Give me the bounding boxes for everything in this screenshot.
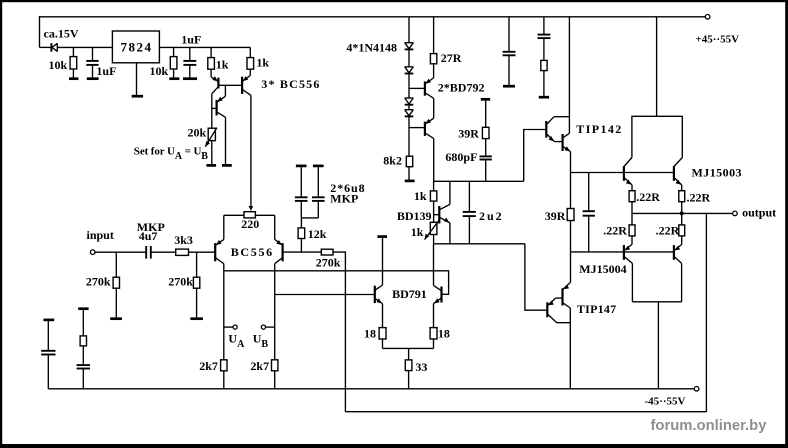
wire: feedback bottom run xyxy=(345,411,706,413)
svg-text:input: input xyxy=(87,228,114,242)
potentiometer 1k (bias) xyxy=(430,222,437,234)
svg-text:TIP142: TIP142 xyxy=(576,122,622,136)
resistor 8k2 xyxy=(406,156,412,167)
wire: output node xyxy=(632,212,733,214)
regulator U1 7824 xyxy=(112,31,159,63)
resistor 10k (input filter) xyxy=(72,47,74,56)
resistor 27R xyxy=(433,17,435,54)
resistor 39R (comp) xyxy=(485,101,487,128)
svg-text:2u2: 2u2 xyxy=(479,209,504,223)
ground (snubber) xyxy=(539,96,549,99)
svg-text:MJ15003: MJ15003 xyxy=(692,166,742,180)
svg-text:12k: 12k xyxy=(308,227,327,241)
svg-text:forum.onliner.by: forum.onliner.by xyxy=(651,418,768,434)
resistor 12k (feedback divider) xyxy=(300,239,302,253)
svg-text:.22R: .22R xyxy=(656,224,680,238)
ground (BD791 collector) xyxy=(377,235,387,238)
transistor Q4 BC556 (diff pair left) xyxy=(214,243,216,261)
ground (8k2) xyxy=(405,180,415,183)
transistor Q16 MJ15004 (right) xyxy=(673,245,675,260)
diode D5 1N4148 xyxy=(405,109,414,111)
capacitor 1uF (output filter) xyxy=(189,47,191,61)
potentiometer 20k xyxy=(208,128,215,140)
svg-text:3* BC556: 3* BC556 xyxy=(261,77,320,91)
svg-text:4u7: 4u7 xyxy=(139,229,158,243)
wire: caps join xyxy=(301,217,318,219)
resistor 10k (output filter) xyxy=(173,47,175,56)
wire: Q5 base to feedback node xyxy=(283,251,322,253)
wire: +rail to output collectors xyxy=(656,17,658,117)
resistor 39R (bias chain) xyxy=(570,173,572,209)
wire: Q1-Q2 base link xyxy=(218,84,242,86)
transistor Q9 BD791 xyxy=(382,238,384,285)
wire: cap to 3k3 xyxy=(151,251,176,253)
resistor 2k7 (UA) xyxy=(221,360,227,371)
svg-text:1k: 1k xyxy=(256,56,269,70)
potentiometer 220 (diff pair emitters) xyxy=(224,214,244,216)
diode D3 1N4148 xyxy=(405,66,414,68)
wire: VAS bottom node xyxy=(434,243,525,245)
svg-text:.22R: .22R xyxy=(603,223,627,237)
ground (left cap branch) xyxy=(44,319,55,322)
svg-text:1uF: 1uF xyxy=(96,64,116,78)
wire: Q5 collector to BD791 base xyxy=(275,294,375,296)
resistor 2k7 (UB) xyxy=(272,360,278,371)
svg-text:7824: 7824 xyxy=(121,39,153,54)
ground (7824) xyxy=(136,63,138,95)
node UA terminal xyxy=(224,326,233,328)
svg-text:.22R: .22R xyxy=(687,191,711,205)
svg-text:8k2: 8k2 xyxy=(383,154,402,168)
transistor Q15 MJ15004 (left) xyxy=(623,245,625,260)
svg-text:2*BD792: 2*BD792 xyxy=(438,80,485,94)
resistor 270k (feedback) xyxy=(321,249,333,255)
svg-text:BD139: BD139 xyxy=(397,209,432,223)
resistor 18 (left) xyxy=(379,328,386,339)
svg-text:UB: UB xyxy=(253,331,269,350)
svg-text:4*1N4148: 4*1N4148 xyxy=(346,41,397,55)
svg-text:TIP147: TIP147 xyxy=(577,302,617,316)
wire: diff outputs cross link xyxy=(224,270,434,272)
capacitor 680pF xyxy=(480,155,492,157)
svg-text:-45··55V: -45··55V xyxy=(645,396,686,408)
ground (RC branch) xyxy=(78,307,88,310)
wire: 3k3 to Q4 base xyxy=(189,251,216,253)
svg-text:680pF: 680pF xyxy=(445,150,477,164)
wire: VAS top node xyxy=(434,180,524,182)
capacitor 6u8 MKP (right) xyxy=(313,165,324,168)
svg-text:33: 33 xyxy=(415,360,427,374)
resistor .22R (top right) xyxy=(679,191,685,202)
capacitor 6u8 MKP (left) xyxy=(296,165,307,168)
svg-text:270k: 270k xyxy=(86,275,111,289)
svg-text:270k: 270k xyxy=(168,275,193,289)
capacitor (snubber) xyxy=(543,17,545,35)
transistor Q8 BD139 (Vbe multiplier) xyxy=(438,206,440,224)
resistor 18 (right) xyxy=(430,328,437,339)
capacitor (parallel 39R) xyxy=(588,173,590,212)
svg-text:270k: 270k xyxy=(316,256,341,270)
svg-text:20k: 20k xyxy=(188,125,207,139)
node input terminal xyxy=(90,250,95,255)
resistor (snubber) xyxy=(541,60,547,70)
svg-text:10k: 10k xyxy=(49,58,68,72)
svg-text:27R: 27R xyxy=(441,51,462,65)
resistor 270k (input shunt) xyxy=(115,252,117,277)
svg-text:+45··55V: +45··55V xyxy=(696,34,740,46)
wire: +supply top rail xyxy=(40,16,706,18)
svg-text:220: 220 xyxy=(241,217,259,231)
diode D4 1N4148 xyxy=(405,97,414,99)
svg-text:UA: UA xyxy=(228,331,245,350)
wire: tap to Q7 base xyxy=(409,127,425,129)
svg-text:output: output xyxy=(742,205,776,219)
transistor Q14 MJ15003 (right) xyxy=(673,166,675,181)
resistor (rail RC) xyxy=(82,310,84,336)
resistor .22R (bottom right) xyxy=(681,213,683,225)
svg-text:.22R: .22R xyxy=(636,190,660,204)
wire: input to coupling cap xyxy=(95,251,146,253)
transistor Q10 (mirror, diode connected) xyxy=(433,244,435,286)
svg-text:BD791: BD791 xyxy=(392,287,427,301)
svg-text:10k: 10k xyxy=(150,64,169,78)
wire: 7824 output rail xyxy=(159,46,250,48)
svg-text:MKP: MKP xyxy=(330,192,358,206)
ground (20k) xyxy=(206,164,216,167)
wire: feedback takeoff xyxy=(705,213,707,411)
wire: emitters join xyxy=(383,347,434,349)
wire: diode to 7824 xyxy=(57,46,112,48)
capacitor 1uF (input filter) xyxy=(92,47,94,61)
wire: PNP base line xyxy=(571,251,674,253)
border frame xyxy=(0,0,788,2)
transistor Q7 BD792 xyxy=(424,122,426,136)
resistor 3k3 xyxy=(176,249,189,255)
svg-text:MJ15004: MJ15004 xyxy=(579,262,626,276)
wire: -supply bottom rail xyxy=(48,388,694,390)
diode D2 1N4148 xyxy=(405,42,414,44)
wire: left rail drop xyxy=(39,16,41,47)
transistor Q2 BC556 (current mirror right) xyxy=(241,77,243,94)
node UB terminal xyxy=(266,326,275,328)
wire: -rail from output collectors xyxy=(632,301,681,303)
node output terminal xyxy=(733,211,738,216)
svg-text:1uF: 1uF xyxy=(181,33,201,47)
svg-text:39R: 39R xyxy=(458,127,479,141)
svg-text:18: 18 xyxy=(438,327,450,341)
ground (Q3 collector) xyxy=(222,164,232,167)
capacitor MKP 4u7 (input coupling) xyxy=(145,246,147,259)
wire: NPN base line xyxy=(571,172,674,174)
node +45V terminal xyxy=(705,14,710,19)
resistor 1k (bias upper) xyxy=(433,181,435,191)
svg-text:18: 18 xyxy=(364,327,376,341)
capacitor (rail RC) xyxy=(77,364,90,366)
transistor Q1 BC556 (current mirror left) xyxy=(217,78,219,89)
resistor .22R (top left) xyxy=(629,191,635,202)
transistor Q12 TIP147 (darlington) xyxy=(570,252,572,282)
wire: tap to Q6 base xyxy=(409,87,425,89)
transistor Q11 TIP142 (darlington) xyxy=(524,130,547,182)
capacitor 2u2 xyxy=(468,181,470,212)
capacitor (supply bypass) xyxy=(508,17,510,52)
resistor 1k (current source right) xyxy=(249,47,251,57)
svg-text:Set for UA = UB: Set for UA = UB xyxy=(134,145,209,162)
node -45V terminal xyxy=(694,387,699,392)
svg-text:BC556: BC556 xyxy=(231,245,274,259)
svg-text:2k7: 2k7 xyxy=(199,359,218,373)
transistor Q3 BC556 (mirror cascode) xyxy=(224,85,226,96)
svg-text:1k: 1k xyxy=(414,189,427,203)
svg-text:2k7: 2k7 xyxy=(250,359,269,373)
ground (bypass cap) xyxy=(503,85,515,88)
capacitor (rail filter left) xyxy=(47,321,49,351)
transistor Q13 MJ15003 (left) xyxy=(623,166,625,181)
svg-text:1k: 1k xyxy=(216,58,229,72)
node junction dot xyxy=(680,211,684,215)
transistor Q6 BD792 xyxy=(424,81,426,95)
svg-text:1k: 1k xyxy=(411,225,424,239)
svg-text:39R: 39R xyxy=(545,209,566,223)
wire: 15V input wire left xyxy=(40,46,51,48)
resistor 270k (base bias) xyxy=(196,252,198,277)
ground (680pF branch) xyxy=(481,98,490,101)
svg-text:ca.15V: ca.15V xyxy=(44,26,79,40)
wire: feedback corner xyxy=(333,252,345,412)
transistor Q5 BC556 (diff pair right) xyxy=(282,243,284,261)
diode D1 protection xyxy=(50,43,52,52)
resistor 1k (current source left) xyxy=(210,47,212,57)
svg-text:3k3: 3k3 xyxy=(174,233,193,247)
resistor .22R (bottom left) xyxy=(631,213,633,225)
resistor 33 xyxy=(408,348,410,360)
